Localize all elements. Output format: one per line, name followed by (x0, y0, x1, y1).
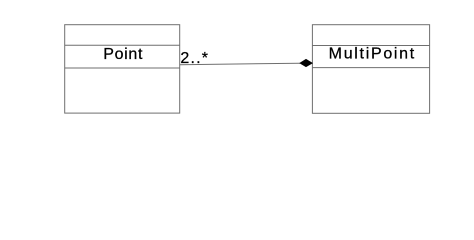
svg-text:MultiPoint: MultiPoint (329, 45, 416, 62)
svg-text:2..*: 2..* (180, 50, 209, 67)
svg-text:Point: Point (103, 46, 143, 63)
